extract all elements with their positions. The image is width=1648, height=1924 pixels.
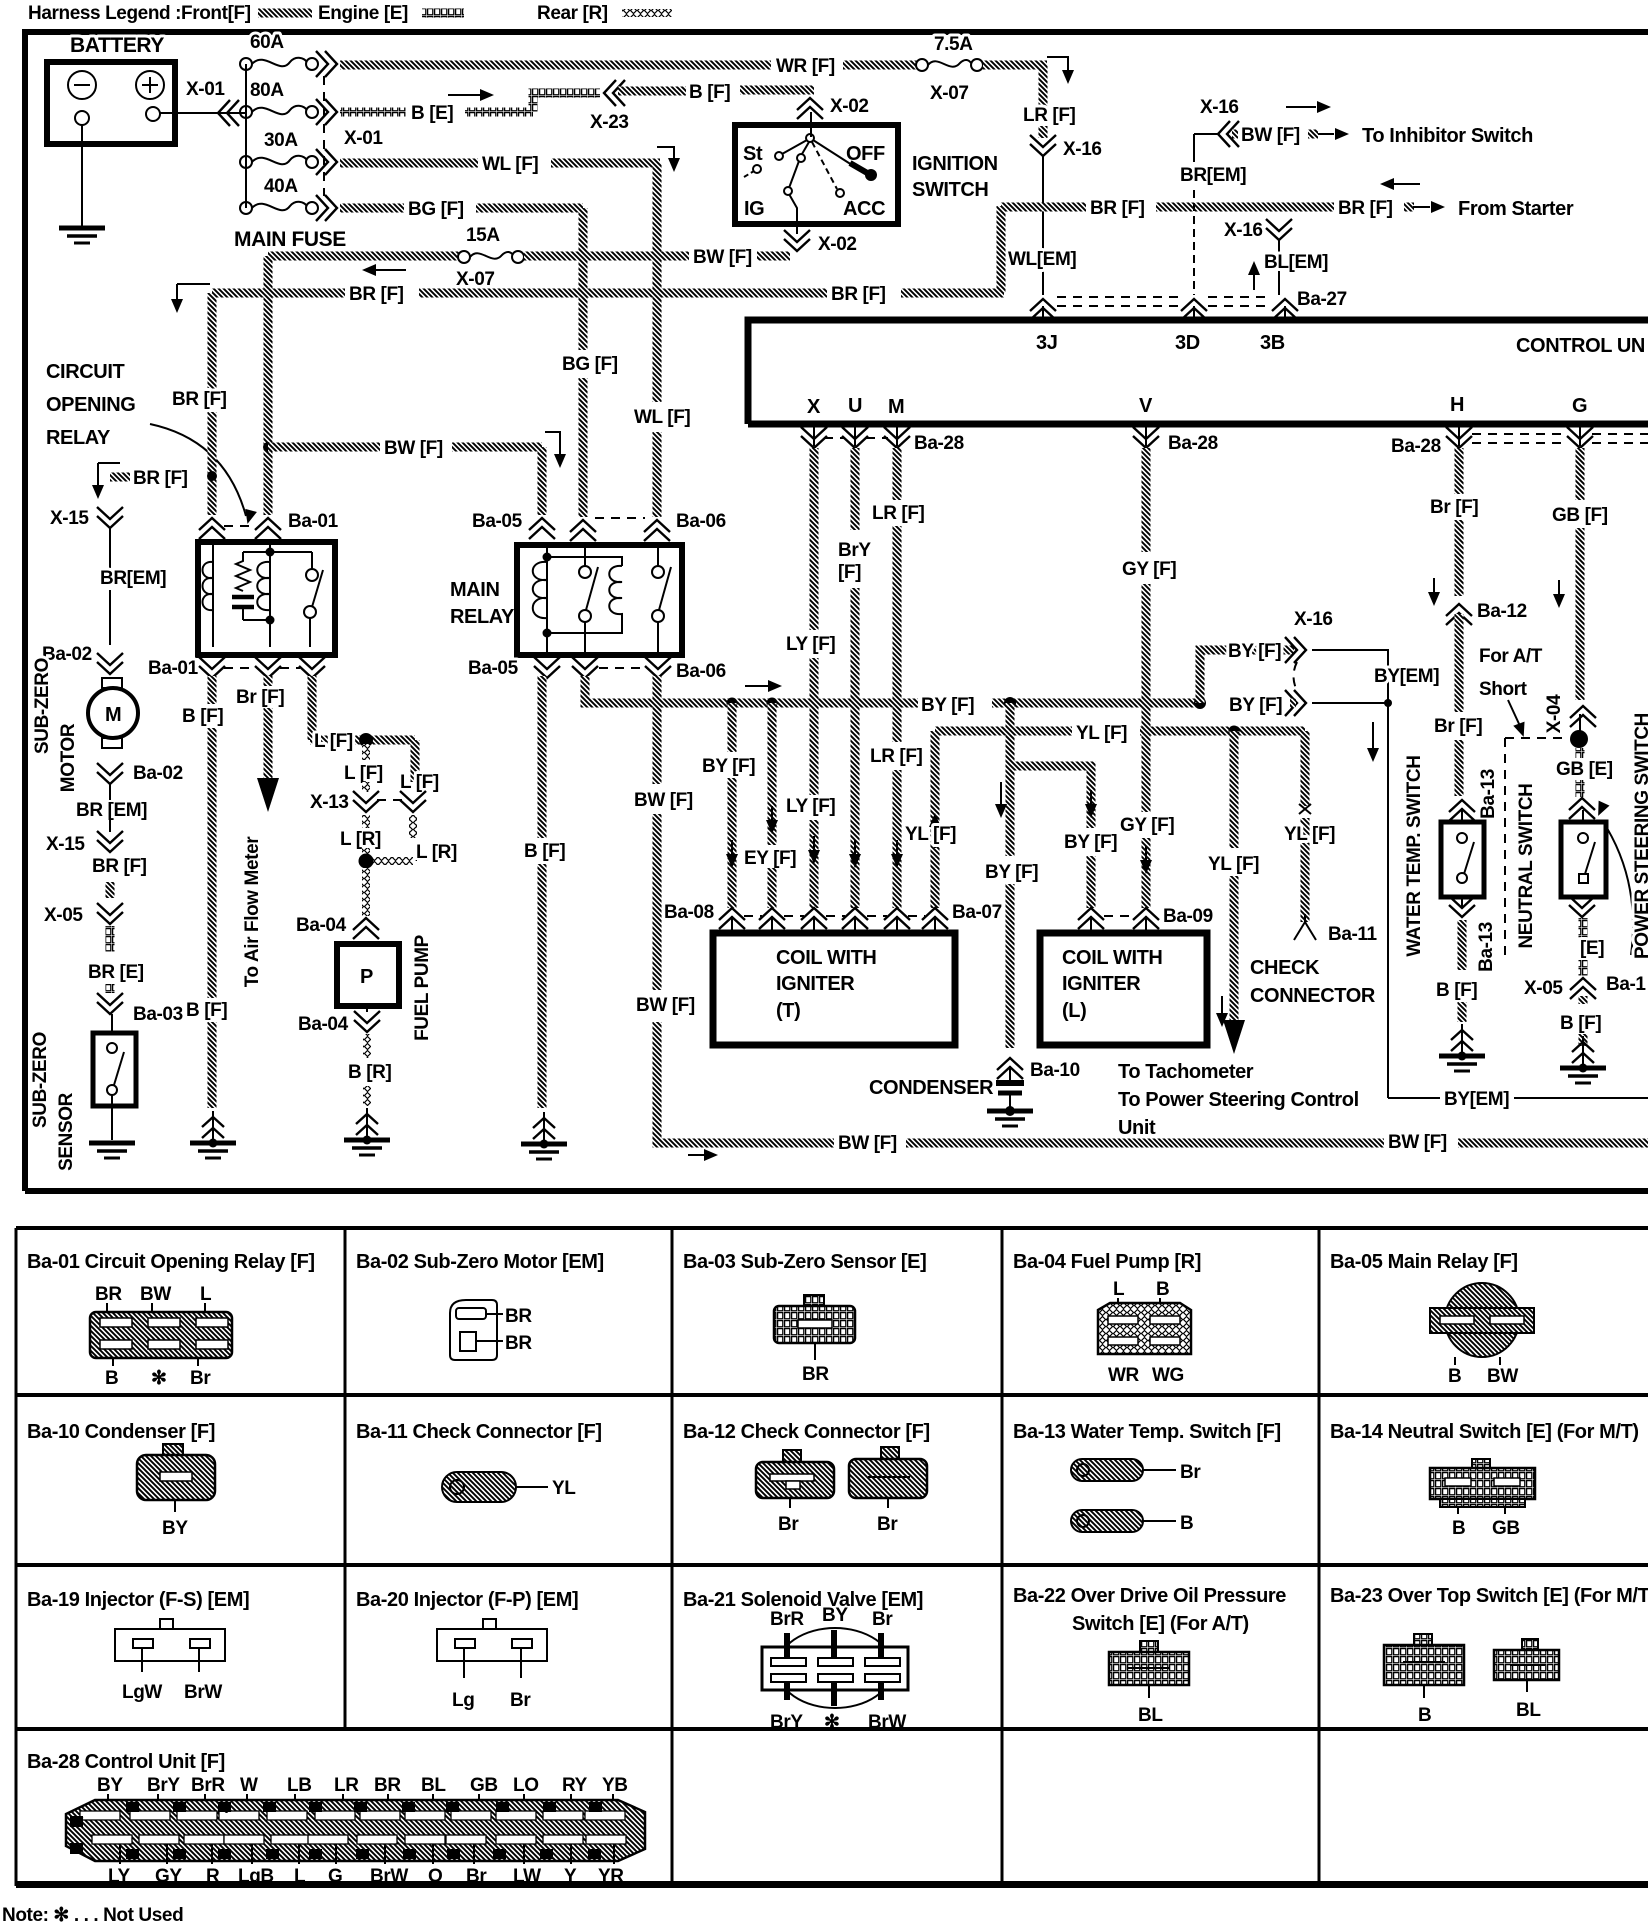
wire L branch right: [411, 740, 420, 782]
sub-zero motor: [102, 678, 122, 688]
Ba-01 cell: [27, 1251, 315, 1389]
svg-text:Ba-02 Sub-Zero Motor [EM]: Ba-02 Sub-Zero Motor [EM]: [356, 1251, 604, 1273]
svg-text:LR: LR: [334, 1775, 359, 1796]
connector Ba-11 fork: [1294, 914, 1316, 940]
connector Ba-01 top: [199, 518, 225, 539]
svg-text:Br: Br: [872, 1609, 893, 1630]
corner arrow at LR: [1047, 57, 1068, 74]
fuel pump: [337, 944, 399, 1006]
svg-text:Ba-01: Ba-01: [288, 511, 339, 532]
svg-text:B: B: [591, 1850, 598, 1861]
connector Ba-02: [97, 653, 123, 674]
corner arrow WL: [657, 147, 674, 163]
coil T box: [713, 933, 955, 1045]
svg-text:BATTERY: BATTERY: [70, 34, 164, 57]
svg-text:Ba-05: Ba-05: [472, 511, 523, 532]
svg-text:B: B: [1452, 1518, 1465, 1539]
relay coil 1: [546, 545, 548, 655]
svg-text:B: B: [1156, 1279, 1169, 1300]
svg-text:MOTOR: MOTOR: [58, 723, 79, 792]
svg-text:V: V: [1139, 395, 1153, 417]
svg-text:X-16: X-16: [1294, 609, 1333, 630]
svg-text:M: M: [312, 1803, 320, 1814]
svg-text:J: J: [406, 1850, 411, 1861]
svg-text:BW [F]: BW [F]: [838, 1133, 897, 1154]
svg-text:YL [F]: YL [F]: [1208, 854, 1259, 875]
svg-text:BrY: BrY: [838, 540, 871, 561]
connector X-15: [97, 507, 123, 528]
arrow from starter: [1413, 206, 1430, 208]
connector Ba-06 top: [570, 520, 596, 541]
svg-text:V: V: [129, 1850, 136, 1861]
svg-text:GY [F]: GY [F]: [1120, 815, 1174, 836]
svg-text:Br [F]: Br [F]: [236, 687, 284, 708]
svg-text:Ba-02: Ba-02: [133, 763, 183, 784]
svg-text:P: P: [269, 1850, 276, 1861]
relay switch: [306, 569, 318, 581]
svg-text:BrR: BrR: [191, 1775, 225, 1796]
svg-text:G: G: [1572, 395, 1587, 417]
wire from main relay sw1 down to BY run: [585, 676, 918, 703]
junction dots: [727, 698, 738, 709]
connector X-16 branch on BR run: [1266, 219, 1292, 240]
svg-text:LW: LW: [513, 1866, 541, 1887]
svg-text:Switch [E] (For A/T): Switch [E] (For A/T): [1072, 1613, 1249, 1635]
svg-text:WL [F]: WL [F]: [634, 407, 690, 428]
svg-text:IGNITER: IGNITER: [776, 973, 855, 995]
svg-text:WR: WR: [1108, 1365, 1140, 1386]
svg-text:A: A: [592, 1803, 599, 1814]
svg-text:Ba-09: Ba-09: [1163, 906, 1213, 927]
wire G / GB[F]: [1576, 448, 1585, 500]
svg-text:Unit: Unit: [1118, 1117, 1156, 1139]
svg-text:BR [F]: BR [F]: [1090, 198, 1145, 219]
wire 3D thin vertical: [1193, 134, 1195, 162]
wire 3B thin: [1278, 240, 1280, 295]
connector X-02 lower: [784, 230, 810, 251]
svg-text:LR [F]: LR [F]: [870, 746, 923, 767]
svg-text:CIRCUIT: CIRCUIT: [46, 361, 124, 383]
flow arrow left above: [1390, 183, 1420, 185]
svg-text:L [F]: L [F]: [400, 772, 439, 793]
svg-text:COIL WITH: COIL WITH: [776, 947, 876, 969]
svg-text:BW [F]: BW [F]: [1241, 125, 1300, 146]
svg-text:From Starter: From Starter: [1458, 198, 1574, 220]
connector X-02 upper: [797, 98, 823, 119]
wire BW vertical to relay: [264, 447, 273, 515]
svg-text:B: B: [105, 1368, 118, 1389]
svg-text:BY [F]: BY [F]: [1229, 695, 1282, 716]
svg-text:C: C: [546, 1803, 553, 1814]
svg-text:BrY: BrY: [147, 1775, 180, 1796]
svg-text:W: W: [72, 1815, 84, 1829]
connector X-01 (left of fuses): [218, 100, 239, 126]
wire BG [F] row: [340, 204, 404, 213]
svg-text:IGNITER: IGNITER: [1062, 973, 1141, 995]
svg-text:COIL WITH: COIL WITH: [1062, 947, 1162, 969]
svg-text:Ba-1: Ba-1: [1606, 974, 1646, 995]
wire WL vertical: [653, 163, 662, 402]
wire M / LR[F]: [893, 448, 902, 500]
svg-text:Ba-28: Ba-28: [1168, 433, 1218, 454]
svg-text:CONTROL UN: CONTROL UN: [1516, 335, 1645, 357]
wire 3J thin: [1042, 156, 1044, 295]
svg-text:BY [F]: BY [F]: [921, 695, 974, 716]
svg-text:SUB-ZERO: SUB-ZERO: [32, 658, 53, 754]
svg-text:P: P: [360, 966, 373, 988]
svg-text:WR [F]: WR [F]: [776, 56, 835, 77]
svg-text:Ba-06: Ba-06: [676, 511, 726, 532]
svg-text:GB [E]: GB [E]: [1556, 759, 1613, 780]
sub-zero sensor box: [111, 1014, 113, 1033]
BY branch upper to X-16: [1200, 650, 1294, 703]
connector Ba-13 lower: [1461, 897, 1463, 908]
BY branch x=772 down to coil T: [768, 703, 777, 845]
svg-text:X-16: X-16: [1224, 220, 1263, 241]
svg-text:LO: LO: [513, 1775, 539, 1796]
svg-text:BR: BR: [374, 1775, 401, 1796]
svg-text:CONDENSER: CONDENSER: [869, 1077, 994, 1099]
junction BR splice: [207, 471, 217, 481]
wire B [E] corner up: [533, 93, 600, 112]
svg-text:BrW: BrW: [370, 1866, 408, 1887]
svg-text:BR [F]: BR [F]: [92, 856, 147, 877]
svg-text:Ba-10: Ba-10: [1030, 1060, 1080, 1081]
svg-text:M: M: [888, 396, 904, 418]
svg-text:Ba-06: Ba-06: [676, 661, 726, 682]
svg-text:R: R: [221, 1850, 229, 1861]
svg-text:OPENING: OPENING: [46, 394, 135, 416]
svg-text:Br: Br: [1180, 1462, 1201, 1483]
connector Ba-04 lower: [366, 1006, 368, 1012]
svg-text:(L): (L): [1062, 1000, 1086, 1022]
connector X-13 pair: [353, 791, 379, 812]
fuse 40A: [240, 202, 252, 214]
svg-text:LB: LB: [287, 1775, 312, 1796]
Ba-11 cell: [356, 1421, 602, 1502]
wire battery plus to X-01: [160, 112, 245, 114]
svg-text:Ba-03 Sub-Zero Sensor [E]: Ba-03 Sub-Zero Sensor [E]: [683, 1251, 926, 1273]
svg-text:LR [F]: LR [F]: [1023, 105, 1076, 126]
svg-text:Ba-01: Ba-01: [148, 658, 199, 679]
svg-text:Ba-14 Neutral Switch [E] (For: Ba-14 Neutral Switch [E] (For M/T): [1330, 1421, 1639, 1443]
wire BR corner up right: [997, 206, 1006, 293]
svg-text:X-13: X-13: [310, 792, 349, 813]
svg-text:BY: BY: [162, 1518, 188, 1539]
svg-text:BW [F]: BW [F]: [1388, 1132, 1447, 1153]
svg-text:[E]: [E]: [1580, 938, 1604, 959]
svg-text:3B: 3B: [1260, 332, 1285, 354]
connector X-23: [604, 80, 625, 106]
svg-text:Rear [R]: Rear [R]: [537, 3, 608, 24]
svg-text:BR: BR: [505, 1306, 532, 1327]
Ba-14 cell: [1330, 1421, 1639, 1539]
svg-text:Ba-08: Ba-08: [664, 902, 714, 923]
svg-text:Ba-28 Control Unit [F]: Ba-28 Control Unit [F]: [27, 1751, 225, 1773]
thin wires BY[EM]: [1312, 650, 1388, 1098]
branch to coil L pin BY: [1010, 766, 1091, 828]
svg-text:D: D: [543, 1850, 550, 1861]
svg-text:IG: IG: [744, 198, 764, 220]
wire BW to inhibitor: [1194, 133, 1218, 135]
svg-text:U: U: [129, 1803, 136, 1814]
svg-text:Note: ✻ . . . Not Used: Note: ✻ . . . Not Used: [2, 1905, 183, 1924]
svg-text:BR [E]: BR [E]: [88, 962, 144, 983]
wire BG vertical: [579, 208, 588, 350]
svg-text:40A: 40A: [264, 176, 298, 197]
svg-text:X-01: X-01: [186, 79, 225, 100]
svg-text:Y: Y: [564, 1866, 577, 1887]
Ba-12 cell: [683, 1421, 930, 1535]
svg-text:YL [F]: YL [F]: [905, 824, 956, 845]
svg-text:B [R]: B [R]: [348, 1062, 391, 1083]
svg-text:BR [F]: BR [F]: [172, 389, 227, 410]
svg-text:B [F]: B [F]: [1436, 980, 1477, 1001]
svg-text:X-15: X-15: [46, 834, 85, 855]
svg-text:✻: ✻: [151, 1368, 167, 1389]
below neutral switch: [1569, 896, 1595, 917]
plus symbol: [136, 71, 164, 99]
wire B [F]: [618, 87, 686, 96]
svg-text:WL [F]: WL [F]: [482, 154, 538, 175]
svg-text:30A: 30A: [264, 130, 298, 151]
svg-text:Q: Q: [221, 1803, 229, 1814]
svg-text:BrR: BrR: [770, 1609, 804, 1630]
svg-text:BW: BW: [140, 1284, 171, 1305]
svg-text:BR[EM]: BR[EM]: [1180, 165, 1246, 186]
svg-text:X-05: X-05: [1524, 978, 1563, 999]
svg-text:S: S: [176, 1803, 183, 1814]
svg-text:80A: 80A: [250, 80, 284, 101]
Ba-28 connectors below X U M: [813, 427, 815, 446]
pointer arc to relay: [150, 424, 246, 516]
svg-text:To Tachometer: To Tachometer: [1118, 1061, 1254, 1083]
svg-text:Ba-12 Check Connector [F]: Ba-12 Check Connector [F]: [683, 1421, 930, 1443]
svg-text:Ba-23 Over Top Switch [E] (For: Ba-23 Over Top Switch [E] (For M/T): [1330, 1585, 1648, 1607]
svg-text:BrW: BrW: [868, 1712, 906, 1733]
svg-text:X-07: X-07: [456, 269, 495, 290]
svg-text:Ba-05 Main Relay [F]: Ba-05 Main Relay [F]: [1330, 1251, 1518, 1273]
svg-text:LR [F]: LR [F]: [872, 503, 925, 524]
wire WL [F] row: [340, 159, 478, 168]
svg-text:MAIN FUSE: MAIN FUSE: [234, 228, 346, 251]
svg-text:L [R]: L [R]: [416, 842, 457, 863]
svg-text:Ba-04: Ba-04: [296, 915, 347, 936]
Ba-28 H G: [1458, 427, 1460, 446]
svg-text:X-02: X-02: [818, 234, 857, 255]
svg-text:To Power Steering Control: To Power Steering Control: [1118, 1089, 1359, 1111]
svg-text:T: T: [176, 1850, 182, 1861]
circuit opening relay box: [198, 542, 335, 655]
relay switch 1: [579, 566, 591, 578]
svg-text:BL: BL: [421, 1775, 446, 1796]
svg-text:LY [F]: LY [F]: [786, 796, 835, 817]
svg-text:Ba-03: Ba-03: [133, 1004, 183, 1025]
wire U / BrY[F]: [851, 448, 860, 530]
svg-text:B [F]: B [F]: [524, 841, 565, 862]
wire L branch left: [362, 744, 370, 760]
wire BW corner down: [264, 256, 273, 447]
svg-text:BG [F]: BG [F]: [408, 199, 464, 220]
ground battery: [59, 228, 105, 243]
svg-text:H: H: [450, 1850, 457, 1861]
svg-text:SUB-ZERO: SUB-ZERO: [30, 1032, 51, 1128]
svg-text:Lg: Lg: [452, 1690, 474, 1711]
svg-text:LgB: LgB: [238, 1866, 274, 1887]
svg-text:BL[EM]: BL[EM]: [1264, 252, 1328, 273]
svg-text:Ba-13: Ba-13: [1478, 769, 1499, 819]
svg-text:Harness Legend :Front[F]: Harness Legend :Front[F]: [28, 3, 251, 24]
BY branch x=1010 down to condenser: [1006, 703, 1015, 856]
neutral switch box: [1561, 822, 1606, 897]
svg-text:Ba-13 Water Temp. Switch [F]: Ba-13 Water Temp. Switch [F]: [1013, 1421, 1281, 1443]
table grid: [16, 1228, 1648, 1886]
svg-text:WL[EM]: WL[EM]: [1008, 249, 1076, 270]
svg-text:X-07: X-07: [930, 83, 969, 104]
svg-text:H: H: [1450, 394, 1464, 416]
svg-text:X-16: X-16: [1200, 97, 1239, 118]
fuse bus vertical: [245, 64, 247, 208]
svg-text:B [F]: B [F]: [1560, 1013, 1601, 1034]
wire Br [F] from relay pin2 to air flow meter: [264, 676, 273, 686]
svg-text:L [R]: L [R]: [340, 829, 381, 850]
svg-text:K: K: [357, 1803, 365, 1814]
svg-text:GY [F]: GY [F]: [1122, 559, 1176, 580]
svg-text:LY: LY: [108, 1866, 130, 1887]
fuse 7.5A: [916, 59, 928, 71]
svg-text:B: B: [1418, 1705, 1431, 1726]
svg-text:L [F]: L [F]: [344, 763, 383, 784]
svg-text:E: E: [499, 1803, 506, 1814]
svg-text:BY [F]: BY [F]: [1064, 832, 1117, 853]
svg-text:BG [F]: BG [F]: [562, 354, 618, 375]
svg-text:B [F]: B [F]: [186, 1000, 227, 1021]
svg-text:BR[EM]: BR[EM]: [100, 568, 166, 589]
svg-text:BY [F]: BY [F]: [702, 756, 755, 777]
svg-text:BY[EM]: BY[EM]: [1444, 1089, 1509, 1110]
svg-text:GB: GB: [1492, 1518, 1520, 1539]
svg-text:Ba-05: Ba-05: [468, 658, 519, 679]
svg-text:BL: BL: [1516, 1700, 1541, 1721]
svg-text:BW [F]: BW [F]: [384, 438, 443, 459]
flow arrow left: [372, 269, 406, 271]
svg-text:YL [F]: YL [F]: [1076, 723, 1127, 744]
svg-text:Short: Short: [1479, 679, 1528, 700]
svg-text:BR [F]: BR [F]: [1338, 198, 1393, 219]
connector Ba-01 bottom: [199, 657, 225, 678]
connector neutral top: [1569, 798, 1595, 819]
svg-text:L: L: [359, 1850, 365, 1861]
Ba-04 cell: [1013, 1251, 1201, 1386]
Ba-23 cell: [1330, 1585, 1648, 1726]
svg-text:BL: BL: [1138, 1705, 1163, 1726]
wire B [F] from relay pin1: [208, 676, 217, 704]
Ba-20 cell: [356, 1589, 578, 1711]
svg-text:YL [F]: YL [F]: [1284, 824, 1335, 845]
flow arrow right: [448, 94, 485, 96]
Ba-03 cell: [683, 1251, 926, 1385]
svg-text:BY: BY: [822, 1605, 848, 1626]
svg-text:Ba-04: Ba-04: [298, 1014, 349, 1035]
svg-text:BY [F]: BY [F]: [985, 862, 1038, 883]
svg-text:BW [F]: BW [F]: [693, 247, 752, 268]
svg-text:CONNECTOR: CONNECTOR: [1250, 985, 1376, 1007]
svg-text:M: M: [105, 704, 121, 726]
relay switch 2: [652, 566, 664, 578]
water temp switch box: [1441, 822, 1484, 897]
svg-text:Ba-11: Ba-11: [1328, 924, 1378, 945]
svg-text:Ba-10 Condenser [F]: Ba-10 Condenser [F]: [27, 1421, 215, 1443]
svg-text:N: N: [312, 1850, 319, 1861]
Ba-22 cell: [1013, 1585, 1286, 1726]
svg-text:BR [F]: BR [F]: [831, 284, 886, 305]
svg-text:O: O: [266, 1803, 274, 1814]
svg-text:St: St: [743, 143, 763, 165]
svg-text:Ba-13: Ba-13: [1476, 922, 1497, 972]
relay coil 2: [609, 566, 622, 624]
svg-text:LY [F]: LY [F]: [786, 634, 835, 655]
svg-text:B [F]: B [F]: [182, 706, 223, 727]
svg-text:F: F: [496, 1850, 502, 1861]
svg-text:Br [F]: Br [F]: [1434, 716, 1482, 737]
svg-text:3J: 3J: [1036, 332, 1057, 354]
svg-text:GY: GY: [155, 1866, 182, 1887]
svg-text:Ba-01 Circuit Opening Relay [F: Ba-01 Circuit Opening Relay [F]: [27, 1251, 315, 1273]
connector Ba-05/Ba-06 bottom: [534, 657, 560, 678]
Ba-28 cell: [27, 1751, 645, 1887]
Ba-13 cell: [1013, 1421, 1281, 1534]
switch mechanism: [806, 134, 814, 142]
svg-text:LgW: LgW: [122, 1682, 162, 1703]
svg-text:BY: BY: [97, 1775, 123, 1796]
svg-text:RELAY: RELAY: [46, 427, 111, 449]
wire battery minus to ground: [81, 125, 83, 228]
svg-text:G: G: [449, 1803, 457, 1814]
svg-text:Br: Br: [778, 1514, 799, 1535]
svg-text:GB [F]: GB [F]: [1552, 505, 1608, 526]
svg-text:Br [F]: Br [F]: [1430, 497, 1478, 518]
svg-text:Ba-11 Check Connector [F]: Ba-11 Check Connector [F]: [356, 1421, 602, 1443]
Ba-28 V: [1145, 427, 1147, 446]
svg-text:GB: GB: [470, 1775, 498, 1796]
relay rails: [243, 552, 312, 620]
svg-text:To Air Flow Meter: To Air Flow Meter: [242, 836, 263, 987]
BR splice to X-15: [98, 463, 120, 490]
relay coil 2: [269, 542, 271, 647]
svg-text:X-01: X-01: [344, 128, 383, 149]
svg-text:✻: ✻: [824, 1712, 840, 1733]
svg-text:Ba-22 Over Drive Oil Pressure: Ba-22 Over Drive Oil Pressure: [1013, 1585, 1286, 1607]
svg-text:X-02: X-02: [830, 96, 869, 117]
connector Ba-13 upper: [1449, 800, 1475, 821]
connector Ba-04: [353, 918, 379, 939]
connector Ba-12: [1446, 604, 1472, 625]
svg-text:BY [F]: BY [F]: [1228, 641, 1281, 662]
wire BW [F] branch to main relay: [268, 443, 380, 452]
wire B [E] row: [340, 108, 406, 117]
legend sample E: [422, 9, 464, 18]
svg-text:Br: Br: [877, 1514, 898, 1535]
svg-text:[F]: [F]: [838, 562, 861, 583]
svg-text:BW [F]: BW [F]: [636, 995, 695, 1016]
svg-text:BR: BR: [95, 1284, 122, 1305]
svg-text:Ba-28: Ba-28: [914, 433, 964, 454]
svg-text:X-05: X-05: [44, 905, 83, 926]
connector X-16 on LR: [1030, 135, 1056, 156]
svg-text:BrY: BrY: [770, 1712, 803, 1733]
svg-text:IGNITION: IGNITION: [912, 153, 998, 175]
svg-text:YR: YR: [598, 1866, 624, 1887]
